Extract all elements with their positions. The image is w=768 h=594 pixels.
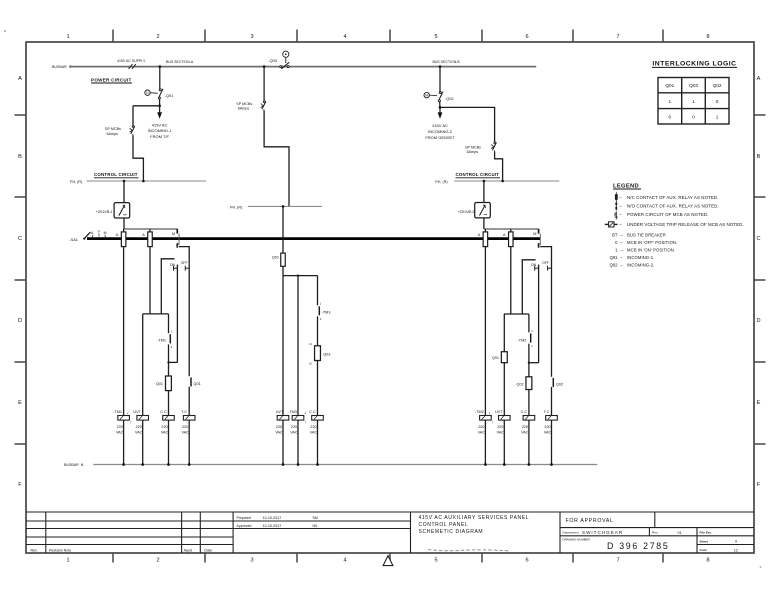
svg-text:7: 7 <box>616 34 619 40</box>
node: busbar N junctions <box>122 463 553 466</box>
svg-text:5: 5 <box>434 34 437 40</box>
svg-text:-TM1: -TM1 <box>157 338 166 342</box>
wire: OFF chain to T.C coil and busbar N <box>188 387 190 465</box>
svg-text:SP MCBs: SP MCBs <box>105 127 121 131</box>
svg-text:BUSBAR N: BUSBAR N <box>64 463 84 467</box>
aux contact box Q01 (right) <box>501 352 507 363</box>
svg-text:Q03: Q03 <box>689 83 698 88</box>
svg-text:6: 6 <box>525 558 528 564</box>
svg-text:0: 0 <box>716 99 719 104</box>
svg-text:PH, (R): PH, (R) <box>70 180 82 184</box>
svg-text:220: 220 <box>117 425 123 429</box>
svg-text:7: 7 <box>130 421 132 425</box>
svg-text:Q01: Q01 <box>194 382 201 386</box>
svg-text:BUS SECTION-A: BUS SECTION-A <box>166 60 194 64</box>
svg-text:–: – <box>619 204 622 209</box>
svg-text:M: M <box>425 94 428 98</box>
svg-text:C: C <box>18 236 22 242</box>
svg-text:1: 1 <box>320 302 322 306</box>
selector switch SA1 <box>69 229 106 241</box>
wire: join jog (left) <box>169 361 178 363</box>
wire: selector control bus (heavy) <box>87 237 541 240</box>
svg-text:Q02: Q02 <box>713 83 722 88</box>
svg-text:Q01: Q01 <box>272 255 279 259</box>
svg-text:POWER CIRCUIT: POWER CIRCUIT <box>91 78 132 83</box>
wire: ON button feed (right) <box>522 260 535 314</box>
svg-text:VAC: VAC <box>182 430 190 434</box>
svg-text:INCOMING-1: INCOMING-1 <box>148 128 173 133</box>
wire: A2 contact down to junction bar (right) <box>510 247 512 314</box>
wire: box to UVT coil and busbar N (right) <box>503 363 505 465</box>
svg-text:VAC: VAC <box>161 430 169 434</box>
svg-text:C.C: C.C <box>309 410 316 414</box>
legend symbol: N/C contact <box>615 192 617 201</box>
wire: bus to Q01 <box>159 67 161 89</box>
svg-text:10: 10 <box>309 362 312 366</box>
svg-text:D: D <box>18 318 22 324</box>
wire: ON button feed (left) <box>161 259 174 314</box>
svg-text:UVT: UVT <box>133 410 141 414</box>
svg-text:Q02: Q02 <box>610 262 619 267</box>
wire: A1 contact down to TM1 coil and busbar N <box>123 247 125 465</box>
node: TM2/ON join <box>528 362 530 364</box>
svg-text:OFF: OFF <box>542 261 549 265</box>
svg-text:–: – <box>620 240 623 245</box>
svg-text:3: 3 <box>531 344 533 348</box>
coil TM3 220VAC <box>292 416 304 421</box>
wire: MCB-1 to control circuit line <box>133 135 143 181</box>
aux contact Q01 (left holding) <box>190 377 192 386</box>
svg-text:2: 2 <box>305 411 307 415</box>
svg-text:INCOMING-1.: INCOMING-1. <box>627 255 654 260</box>
svg-text:Rev.: Rev. <box>31 548 38 552</box>
coil UVT 220VAC (left) <box>137 416 149 421</box>
coil TM2 220VAC <box>480 416 492 421</box>
svg-text:4: 4 <box>343 34 346 40</box>
svg-text:1: 1 <box>668 99 671 104</box>
wire: A1 contact down to TM2 coil and busbar N <box>484 247 486 465</box>
svg-text:FROM GENSET: FROM GENSET <box>425 135 455 140</box>
svg-text:A: A <box>91 231 94 235</box>
wire: control phase line left <box>87 180 207 182</box>
svg-text:Q02: Q02 <box>516 382 523 386</box>
svg-text:B: B <box>757 154 761 160</box>
node: relay tap right <box>483 180 486 183</box>
svg-text:0: 0 <box>615 240 618 245</box>
svg-text:0: 0 <box>668 115 671 120</box>
coil TM1 220VAC <box>118 416 130 421</box>
svg-text:6: 6 <box>525 34 528 40</box>
svg-text:VAC: VAC <box>275 430 283 434</box>
svg-text:220: 220 <box>478 425 484 429</box>
wire: junction bar (left) <box>143 313 169 315</box>
node: relay tap <box>123 180 126 183</box>
coil UVT 220VAC (middle) <box>277 416 289 421</box>
svg-text:220: 220 <box>497 425 503 429</box>
wire: unit 1 to selector contacts <box>123 218 125 229</box>
contact A2 of SA1 (right) <box>510 229 512 232</box>
svg-text:–: – <box>620 262 623 267</box>
svg-text:VAC: VAC <box>544 430 552 434</box>
svg-text:A: A <box>503 233 506 237</box>
svg-text:1: 1 <box>615 248 618 253</box>
svg-text:A: A <box>18 76 22 82</box>
svg-text:+Z01VB-2: +Z01VB-2 <box>458 210 475 214</box>
svg-text:B: B <box>18 154 22 160</box>
revision triangle mark <box>383 556 393 566</box>
wire: tee to MCB-2 <box>440 107 495 141</box>
svg-text:Prepared: Prepared <box>237 516 251 520</box>
svg-text:1: 1 <box>171 330 173 334</box>
svg-text:A: A <box>142 233 145 237</box>
svg-text:Q03: Q03 <box>323 352 330 356</box>
incoming-2 feeder arrow <box>439 107 441 112</box>
svg-text:8: 8 <box>706 34 709 40</box>
svg-text:CONTROL CIRCUIT: CONTROL CIRCUIT <box>456 172 500 177</box>
svg-text:–: – <box>619 212 622 217</box>
contact A1 of SA1 (left) <box>123 229 125 232</box>
svg-text:–: – <box>620 255 623 260</box>
wire: Q01 to node <box>159 99 161 106</box>
interlocking logic table <box>658 78 729 125</box>
node: incomer-1 tee <box>158 104 161 107</box>
svg-text:-TM3: -TM3 <box>322 311 331 315</box>
wire: join jog (right) <box>529 362 539 364</box>
wire: M to OFF button chain (right) <box>540 247 551 377</box>
svg-text:INCOMING-2.: INCOMING-2. <box>627 262 654 267</box>
svg-text:BUS SECTION-B: BUS SECTION-B <box>433 60 461 64</box>
svg-text:7: 7 <box>305 421 307 425</box>
svg-text:D: D <box>756 318 760 324</box>
wire: link over selector contacts (left) <box>124 228 177 230</box>
breaker Q01 (incoming-1, motorised N) <box>145 89 173 99</box>
svg-text:6Amps: 6Amps <box>467 150 479 154</box>
svg-text:Approved: Approved <box>237 524 252 528</box>
svg-text:–: – <box>620 248 623 253</box>
svg-text:SWITCHGEAR: SWITCHGEAR <box>582 530 623 535</box>
legend symbol: UV trip release <box>605 223 609 225</box>
svg-text:BT: BT <box>612 232 618 237</box>
wire: junction bar (middle) <box>283 275 318 277</box>
svg-text:File Ext:: File Ext: <box>700 531 712 535</box>
svg-text:M: M <box>172 232 175 236</box>
wire: MCB-2 to control circuit line right <box>495 152 503 182</box>
svg-text:LEGEND: LEGEND <box>613 183 639 189</box>
contact A1 of SA1 (right) <box>484 229 486 232</box>
svg-text:VAC: VAC <box>135 430 143 434</box>
svg-text:3: 3 <box>250 34 253 40</box>
svg-text:-TM2: -TM2 <box>518 338 527 342</box>
node: MCB-1 feed junction <box>142 180 145 183</box>
svg-text:SCHEMETIC DIAGRAM: SCHEMETIC DIAGRAM <box>419 529 484 535</box>
wire: bar to Q01 aux box (right) <box>503 314 505 352</box>
svg-text:0: 0 <box>692 115 695 120</box>
svg-text:220: 220 <box>310 425 316 429</box>
wire: line to UV release unit 2 <box>483 181 485 203</box>
svg-text:N/C CONTACT OF AUX. RELAY AS N: N/C CONTACT OF AUX. RELAY AS NOTED. <box>627 195 719 200</box>
svg-text:13-10-2017: 13-10-2017 <box>263 524 282 528</box>
svg-text:UVT: UVT <box>495 410 503 414</box>
svg-text:PH, (R): PH, (R) <box>230 206 242 210</box>
coil UVT 220VAC (right) <box>499 416 511 421</box>
svg-text:Date: Date <box>204 548 212 552</box>
wire: to UVT coil (middle) <box>282 276 284 465</box>
svg-text:N/O CONTACT OF AUX. RELAY AS N: N/O CONTACT OF AUX. RELAY AS NOTED. <box>627 204 719 209</box>
svg-text:13-10-2017: 13-10-2017 <box>263 516 282 520</box>
svg-text:–: – <box>619 222 622 227</box>
svg-text:2: 2 <box>489 411 491 415</box>
svg-text:01: 01 <box>678 531 682 535</box>
wire: bus to MCB-3 <box>263 67 265 101</box>
svg-text:-Q02: -Q02 <box>445 96 454 101</box>
svg-text:+Z01VB-1: +Z01VB-1 <box>96 210 113 214</box>
svg-text:SP MCBs: SP MCBs <box>465 145 481 149</box>
node: incomer-2 tee <box>439 106 442 109</box>
MCB-3 SP MCBs 6Amps <box>261 101 266 111</box>
svg-text:INCOMING-2: INCOMING-2 <box>428 129 453 134</box>
svg-text:Revision Note: Revision Note <box>49 548 71 552</box>
wire: Q02 to node <box>439 102 441 108</box>
svg-text:VAC: VAC <box>310 430 318 434</box>
svg-text:8: 8 <box>706 558 709 564</box>
wire: junction bar (right) <box>504 313 529 315</box>
wire: line to UV release unit 1 <box>123 181 125 203</box>
coil C.C 220VAC (middle) <box>312 416 324 421</box>
wire: Q02 coil to C.C coil and busbar N (right) <box>528 390 530 465</box>
wire: join to Q01 coil <box>168 362 170 376</box>
svg-text:1: 1 <box>66 558 69 564</box>
contactor coil Q01 (left) <box>166 376 172 391</box>
wire: control phase line right <box>454 180 559 182</box>
node: bus junction for Q01 <box>158 65 161 68</box>
svg-text:2: 2 <box>156 34 159 40</box>
svg-text:Q01: Q01 <box>492 356 499 360</box>
bus tie breaker Q03 (on bus) <box>268 51 289 69</box>
node: MCB-2 feed junction <box>501 180 504 183</box>
svg-text:Cont: Cont <box>700 548 707 552</box>
wire: ON button down to jog (left) <box>176 265 178 363</box>
svg-text:F: F <box>757 482 761 488</box>
svg-text:9: 9 <box>735 540 737 544</box>
contactor coil Q03 <box>315 346 321 361</box>
wire: box to middle bar <box>282 266 284 275</box>
svg-text:Sheet: Sheet <box>700 539 708 543</box>
MCB-1 SP MCBs 6Amps <box>130 126 135 136</box>
wire: link over selector contacts (right) <box>484 228 539 230</box>
contactor coil Q02 <box>528 363 530 377</box>
wire: Q02 aux to T.C coil and busbar N <box>551 387 553 465</box>
svg-text:220: 220 <box>522 425 528 429</box>
node: bus junction for MCB-3 <box>263 65 266 68</box>
svg-text:BUS TIE BREAKER: BUS TIE BREAKER <box>627 232 666 237</box>
svg-text:MCB IN 'OFF' POSITION.: MCB IN 'OFF' POSITION. <box>627 240 677 245</box>
svg-text:220: 220 <box>161 425 167 429</box>
wire: Q01 coil to C.C coil and busbar N <box>168 391 170 465</box>
wire: to TM3 coil (middle) <box>297 276 299 465</box>
legend symbol: MCB power circuit <box>615 211 617 219</box>
UV trip release unit +Z01VB-1 <box>114 203 130 218</box>
svg-text:A: A <box>757 76 761 82</box>
wire: top bus section A/B <box>70 66 536 68</box>
svg-text:220: 220 <box>544 425 550 429</box>
svg-text:3: 3 <box>320 317 322 321</box>
supply infeed marks <box>129 64 133 69</box>
svg-text:FROM T/F: FROM T/F <box>150 134 169 139</box>
svg-text:T.C: T.C <box>181 410 187 414</box>
aux contact Q02 (right holding) <box>552 378 554 387</box>
svg-text:T.C: T.C <box>544 410 550 414</box>
svg-text:415V AC AUXILIARY SERVICES PAN: 415V AC AUXILIARY SERVICES PANEL <box>419 515 530 521</box>
svg-text:C: C <box>756 236 760 242</box>
aux contact box Q01 (middle) <box>281 253 286 266</box>
svg-text:Q02: Q02 <box>556 382 563 386</box>
svg-text:Q01: Q01 <box>156 382 163 386</box>
svg-text:6Amps: 6Amps <box>107 132 119 136</box>
svg-text:7: 7 <box>492 421 494 425</box>
svg-text:DRAWING NUMBER: DRAWING NUMBER <box>563 537 590 541</box>
svg-text:-TM3: -TM3 <box>288 410 297 414</box>
svg-text:–: – <box>619 195 622 200</box>
svg-text:-SA1: -SA1 <box>69 237 78 242</box>
svg-text:220: 220 <box>182 425 188 429</box>
svg-text:VAC: VAC <box>497 430 505 434</box>
wire: unit 2 to selector contacts <box>483 218 485 229</box>
wire: PH to Q01 aux box (middle) <box>282 206 284 253</box>
svg-text:UVT: UVT <box>276 410 284 414</box>
timer contact TM2 <box>528 314 530 332</box>
svg-text:5: 5 <box>434 558 437 564</box>
svg-text:Rev.: Rev. <box>652 530 658 534</box>
svg-text:A: A <box>116 233 119 237</box>
node: bus junction for Q02 <box>439 65 442 68</box>
svg-text:ON: ON <box>531 263 537 267</box>
svg-text:VAC: VAC <box>478 430 486 434</box>
title block grid <box>26 512 754 553</box>
coil T.C 220VAC (left) <box>183 416 195 421</box>
wire: M to OFF button chain (left) <box>179 247 189 377</box>
svg-text:C.C: C.C <box>521 410 528 414</box>
svg-text:-Q03: -Q03 <box>268 58 277 63</box>
svg-text:CONTROL CIRCUIT: CONTROL CIRCUIT <box>94 172 138 177</box>
svg-text:415V AC SUPPLY: 415V AC SUPPLY <box>117 59 146 63</box>
svg-text:M: M <box>533 232 536 236</box>
svg-text:C.C: C.C <box>160 410 167 414</box>
svg-text:E: E <box>757 400 761 406</box>
svg-text:F: F <box>18 482 22 488</box>
svg-text:OFF: OFF <box>181 261 188 265</box>
UV trip release unit +Z01VB-2 <box>475 203 491 218</box>
timer contact TM1 <box>168 314 170 333</box>
svg-text:UNDER VOLTAGE TRIP RELEASE OF: UNDER VOLTAGE TRIP RELEASE OF MCB AS NOT… <box>627 222 744 227</box>
wire: ON button down to jog (right) <box>538 265 540 363</box>
svg-text:Q01: Q01 <box>610 255 619 260</box>
svg-text:220: 220 <box>291 425 297 429</box>
svg-text:CONTROL PANEL: CONTROL PANEL <box>419 522 469 528</box>
svg-text:Q01: Q01 <box>665 83 674 88</box>
wire: tee to MCB-1 <box>133 105 160 107</box>
svg-text:-TM1: -TM1 <box>113 410 122 414</box>
svg-text:-TM2: -TM2 <box>475 410 484 414</box>
svg-text:VAC: VAC <box>116 430 124 434</box>
svg-text:FOR APPROVAL: FOR APPROVAL <box>566 518 614 524</box>
svg-text:415V AC: 415V AC <box>152 122 168 127</box>
svg-text:VAC: VAC <box>521 430 529 434</box>
svg-text:PH, (R): PH, (R) <box>435 180 447 184</box>
svg-text:3: 3 <box>250 558 253 564</box>
svg-text:7: 7 <box>616 558 619 564</box>
wire: bar to UVT coil and busbar N <box>142 314 144 465</box>
svg-text:SM: SM <box>313 516 318 520</box>
coil C.C 220VAC (right) <box>523 416 535 421</box>
svg-text:220: 220 <box>136 425 142 429</box>
wire: MCB-3 to middle PH line <box>264 111 289 207</box>
breaker Q02 (incoming-2, motorised M) <box>424 92 454 102</box>
svg-text:–: – <box>620 232 623 237</box>
wire: bus to Q02 <box>439 67 441 92</box>
svg-text:E: E <box>18 400 22 406</box>
svg-text:0: 0 <box>98 229 100 233</box>
svg-text:INTERLOCKING LOGIC: INTERLOCKING LOGIC <box>652 61 736 68</box>
wire: middle control phase line <box>248 205 322 207</box>
svg-text:POWER CIRCUIT OF MCB AS NOTED.: POWER CIRCUIT OF MCB AS NOTED. <box>627 212 708 217</box>
svg-text:6Amps: 6Amps <box>238 107 250 111</box>
svg-text:1: 1 <box>531 329 533 333</box>
svg-text:12: 12 <box>734 548 738 552</box>
svg-text:3: 3 <box>171 345 173 349</box>
incoming-1 feeder arrow <box>159 106 161 113</box>
svg-text:NS: NS <box>313 524 319 528</box>
MCB-2 SP MCBs 6Amps <box>491 142 496 152</box>
svg-text:-Q01: -Q01 <box>165 93 174 98</box>
svg-text:21: 21 <box>309 342 312 346</box>
node: middle PH tap <box>282 205 285 208</box>
node: middle bar tee <box>297 274 299 276</box>
svg-text:2: 2 <box>156 558 159 564</box>
legend symbol: N/O contact <box>615 201 617 210</box>
svg-text:1: 1 <box>716 115 719 120</box>
svg-text:SP MCBs: SP MCBs <box>236 102 252 106</box>
svg-text:4: 4 <box>343 558 346 564</box>
wire: Q03 coil to C.C coil (middle) <box>317 361 319 465</box>
wire: busbar N <box>93 464 597 466</box>
timer contact TM3 <box>317 276 319 306</box>
coil T.C 220VAC (right) <box>546 416 558 421</box>
svg-text:2: 2 <box>127 411 129 415</box>
svg-text:1: 1 <box>692 99 695 104</box>
svg-text:415V AC: 415V AC <box>432 123 448 128</box>
svg-text:BUSBAR R: BUSBAR R <box>52 65 72 69</box>
svg-text:ON: ON <box>170 263 176 267</box>
svg-text:Appd: Appd <box>184 548 192 552</box>
svg-text:D 396 2785: D 396 2785 <box>607 541 670 551</box>
contact A2 of SA1 (left) <box>149 229 151 232</box>
svg-text:A: A <box>478 233 481 237</box>
svg-text:220: 220 <box>276 425 282 429</box>
svg-text:VAC: VAC <box>290 430 298 434</box>
node: TM1/ON join <box>167 361 169 363</box>
coil C.C 220VAC (left) <box>163 416 175 421</box>
svg-text:MCB IN 'ON' POSITION.: MCB IN 'ON' POSITION. <box>627 248 675 253</box>
svg-text:Department: Department <box>563 531 579 535</box>
wire: A2 contact down to junction bar <box>149 247 151 314</box>
svg-text:1: 1 <box>66 34 69 40</box>
svg-text:M: M <box>104 231 107 235</box>
